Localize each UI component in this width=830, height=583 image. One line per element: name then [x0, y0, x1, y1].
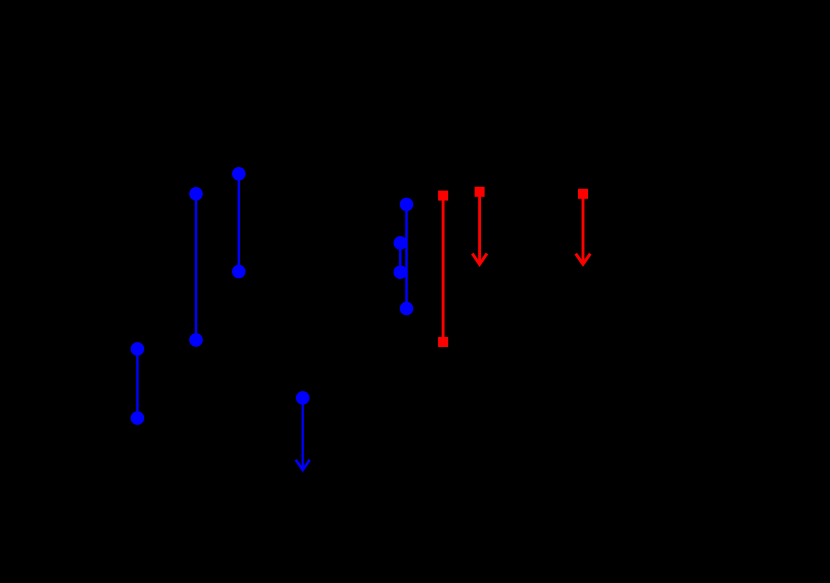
blue limit arrow D head	[296, 460, 310, 470]
red errorbar G line	[442, 196, 445, 342]
blue errorbar B top marker	[232, 167, 246, 181]
blue errorbar F bottom marker	[394, 265, 408, 279]
blue errorbar C bottom marker	[131, 411, 145, 425]
blue errorbar E line	[405, 204, 408, 308]
blue errorbar F top marker	[394, 236, 408, 250]
blue errorbar B line	[238, 174, 240, 272]
blue errorbar B bottom marker	[232, 265, 246, 279]
blue errorbar E top marker	[400, 198, 414, 212]
red limit arrow I head	[576, 254, 591, 265]
red limit arrow H marker	[475, 187, 485, 197]
blue errorbar A top marker	[189, 187, 203, 201]
red limit arrow I marker	[578, 189, 588, 199]
red errorbar G top marker	[438, 191, 448, 201]
blue limit arrow D marker	[296, 391, 310, 405]
red errorbar G bottom marker	[438, 337, 448, 347]
blue errorbar F line	[399, 243, 402, 272]
blue errorbar C top marker	[131, 342, 145, 356]
blue errorbar C line	[136, 349, 138, 418]
blue errorbar A bottom marker	[189, 333, 203, 347]
blue limit arrow D shaft	[302, 398, 304, 468]
red limit arrow I shaft	[582, 194, 585, 263]
red limit arrow H shaft	[478, 192, 481, 263]
blue errorbar A line	[195, 194, 197, 340]
red limit arrow H head	[472, 254, 487, 265]
blue errorbar E bottom marker	[400, 302, 414, 316]
